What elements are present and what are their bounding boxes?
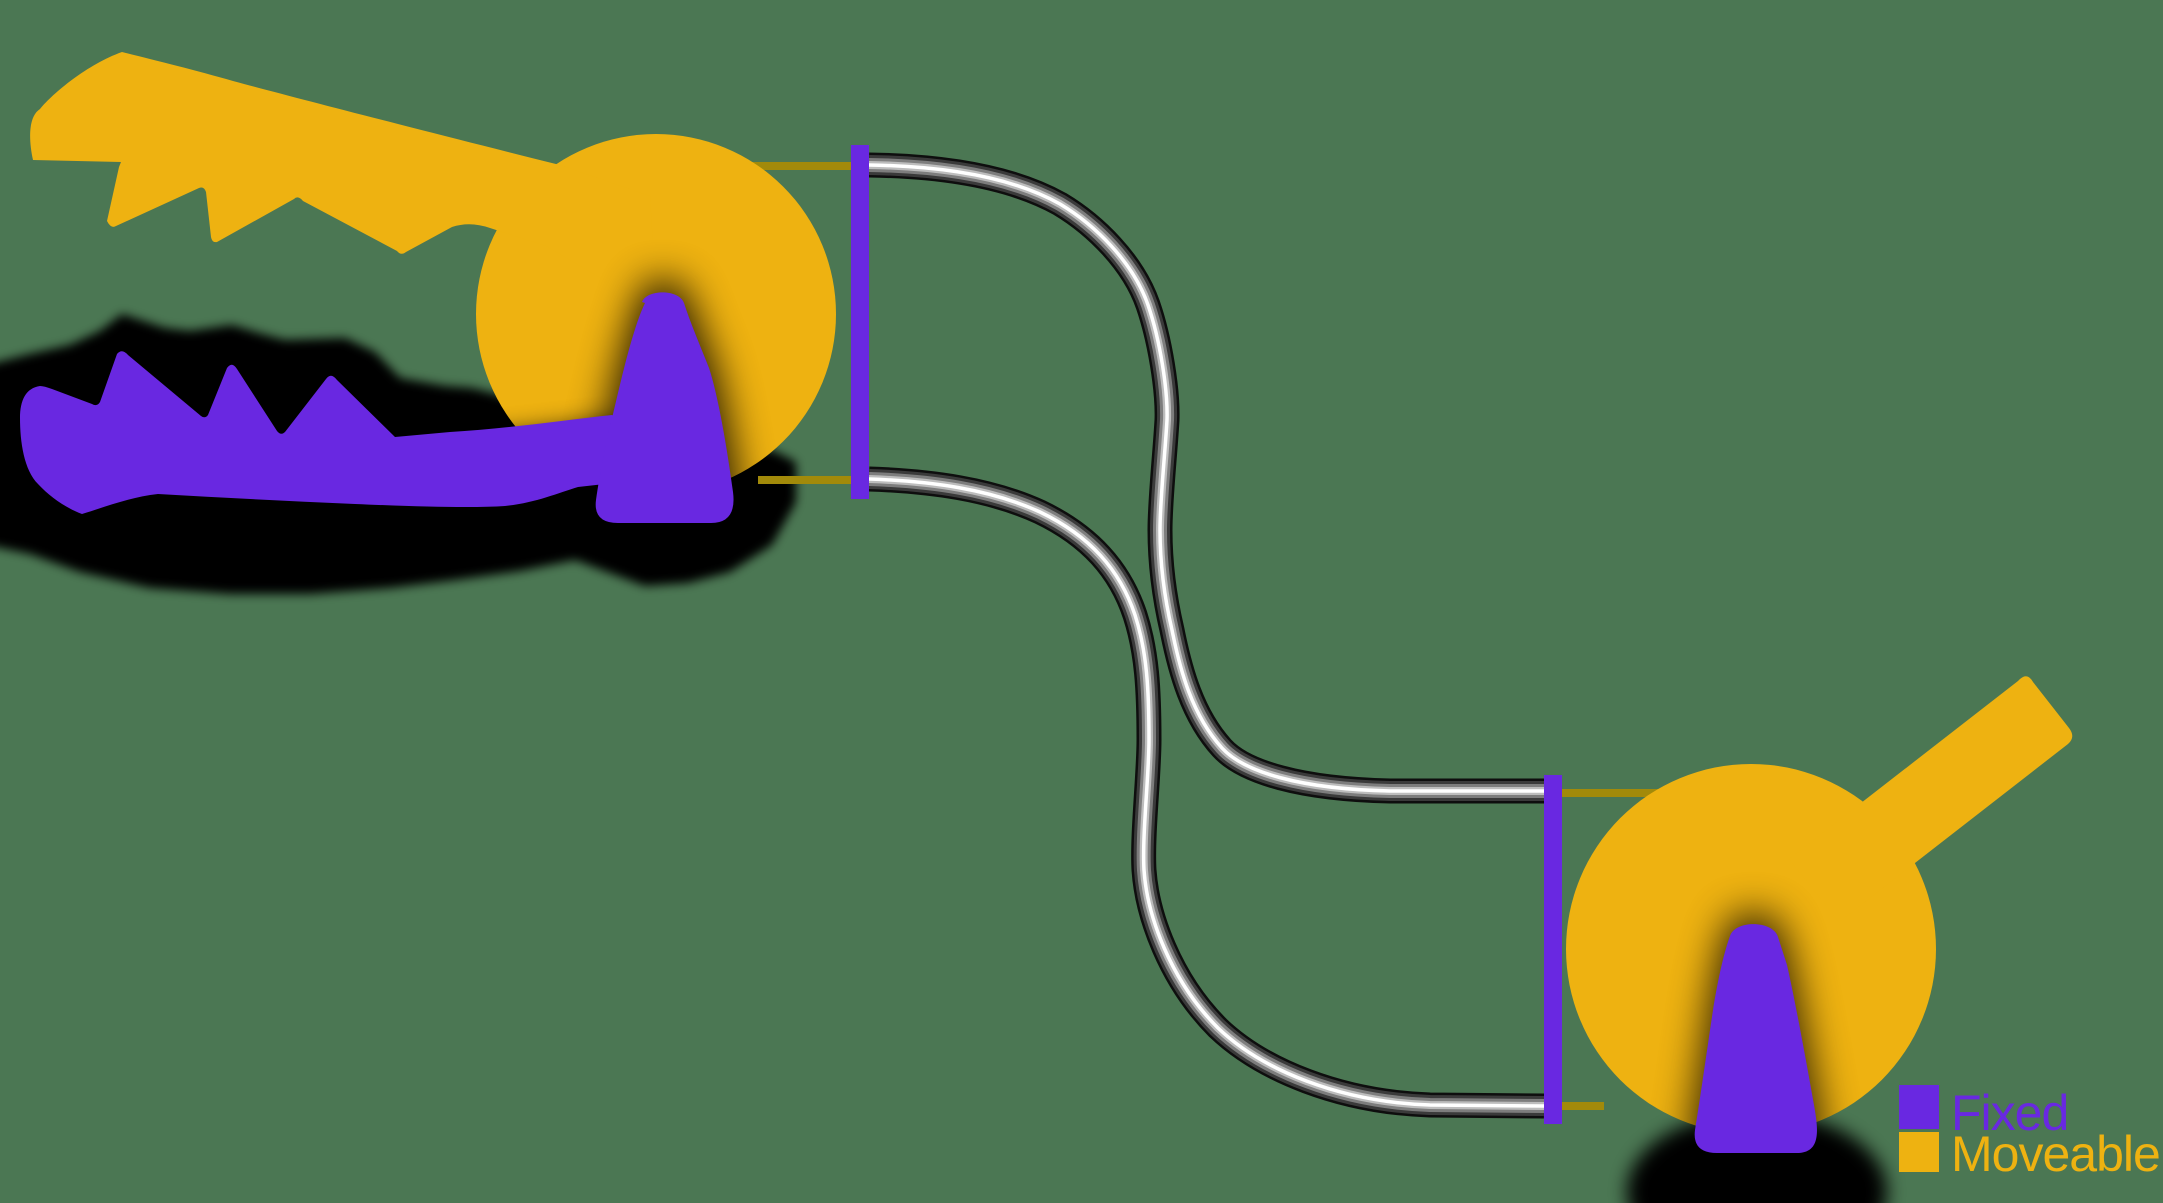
- shadow of knob on right circle: [1689, 913, 1824, 1165]
- ground shadow right assembly: [1627, 1112, 1887, 1203]
- connector line left bottom: [758, 476, 852, 484]
- fixed jaw purple (lower): [20, 351, 645, 514]
- knob cone left: [596, 292, 734, 523]
- shadow of jaws on left circle: [16, 280, 740, 534]
- pulley circle left: [476, 134, 836, 494]
- ground shadow left assembly: [0, 314, 796, 594]
- handle right: [1789, 676, 2072, 922]
- svg-text:Moveable: Moveable: [1951, 1126, 2160, 1182]
- fixed bar right: [1544, 775, 1562, 1124]
- legend swatch moveable: [1899, 1132, 1939, 1172]
- fixed bar left: [851, 145, 869, 499]
- knob cone right: [1695, 924, 1817, 1153]
- legend swatch fixed: [1899, 1085, 1939, 1129]
- wire bottom: [869, 479, 1544, 1106]
- connector line left top: [700, 162, 852, 170]
- connector line right bottom: [1561, 1102, 1604, 1110]
- connector line right top: [1561, 789, 1700, 797]
- moveable jaw yellow (upper): [30, 52, 657, 311]
- pulley circle right: [1566, 764, 1936, 1134]
- wire top: [869, 165, 1544, 791]
